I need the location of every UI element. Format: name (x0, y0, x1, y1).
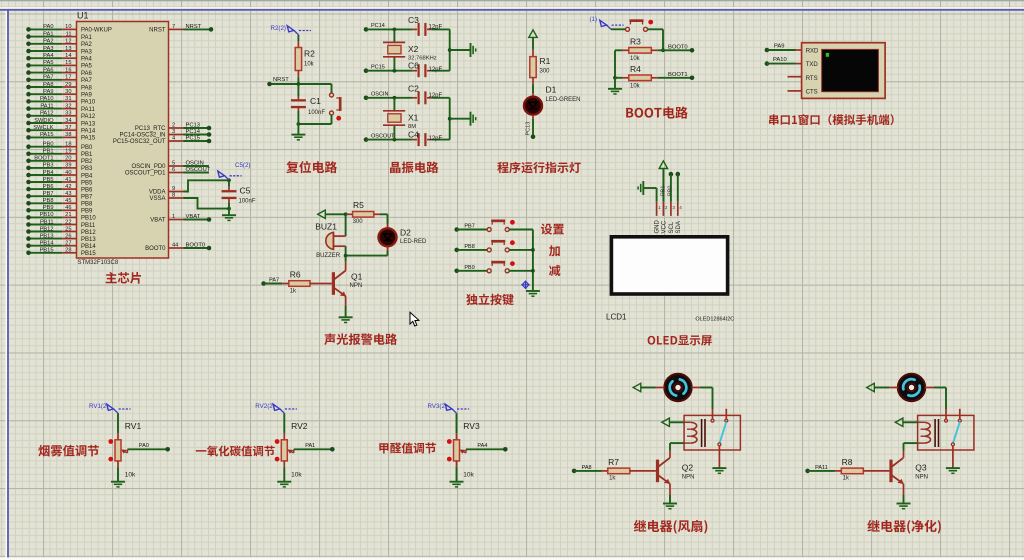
svg-text:PA8: PA8 (81, 85, 93, 91)
svg-text:PB11: PB11 (40, 219, 54, 225)
svg-text:PA13: PA13 (81, 121, 96, 127)
svg-text:100nF: 100nF (308, 110, 325, 116)
svg-text:PA11: PA11 (40, 103, 53, 109)
svg-text:2: 2 (665, 205, 668, 210)
svg-text:37: 37 (65, 125, 71, 131)
svg-text:BOOT1: BOOT1 (668, 72, 688, 78)
svg-text:10k: 10k (630, 83, 641, 89)
svg-text:10k: 10k (463, 472, 474, 479)
svg-text:13: 13 (65, 46, 71, 52)
svg-text:300: 300 (353, 219, 364, 225)
svg-text:PB13: PB13 (81, 237, 96, 243)
svg-text:41: 41 (65, 177, 71, 183)
svg-text:1: 1 (658, 205, 661, 210)
svg-text:Q3: Q3 (915, 462, 927, 472)
svg-text:R5: R5 (353, 200, 364, 210)
svg-text:PB15: PB15 (40, 248, 54, 254)
svg-text:39: 39 (65, 163, 71, 169)
svg-text:OSCOUT: OSCOUT (371, 133, 395, 139)
svg-text:8M: 8M (408, 124, 416, 130)
svg-text:D1: D1 (546, 85, 557, 95)
svg-text:PA3: PA3 (43, 46, 53, 52)
svg-text:21: 21 (65, 212, 71, 218)
svg-text:C5(2): C5(2) (235, 162, 250, 169)
svg-text:PA4: PA4 (477, 443, 487, 449)
svg-text:VBAT: VBAT (186, 214, 201, 220)
svg-text:PA3: PA3 (81, 49, 93, 55)
svg-text:12pF: 12pF (429, 136, 443, 142)
svg-text:R7: R7 (608, 457, 619, 467)
svg-text:RV2(2): RV2(2) (255, 403, 275, 410)
svg-text:PC13_RTC: PC13_RTC (135, 126, 166, 132)
svg-text:PB1: PB1 (43, 149, 54, 155)
svg-text:33: 33 (65, 111, 71, 117)
svg-text:PA10: PA10 (40, 96, 54, 102)
svg-text:OSCIN: OSCIN (186, 160, 204, 166)
svg-text:PA10: PA10 (81, 100, 96, 106)
svg-text:PA7: PA7 (269, 277, 279, 283)
svg-text:PA6: PA6 (43, 67, 53, 73)
svg-text:OSCIN_PD0: OSCIN_PD0 (131, 164, 166, 170)
svg-text:27: 27 (65, 241, 71, 247)
svg-text:10: 10 (65, 24, 71, 30)
svg-text:OSCOUT_PD1: OSCOUT_PD1 (125, 171, 166, 177)
svg-text:PB15: PB15 (81, 251, 96, 257)
svg-text:PA14: PA14 (81, 129, 96, 135)
svg-text:SWDIO: SWDIO (34, 118, 54, 124)
svg-text:PB4: PB4 (81, 173, 93, 179)
svg-text:BOOT1: BOOT1 (34, 156, 53, 162)
svg-text:STM32F103C8: STM32F103C8 (78, 260, 119, 266)
svg-text:8: 8 (172, 193, 175, 199)
svg-text:31: 31 (65, 96, 71, 102)
svg-text:PA2: PA2 (81, 42, 93, 48)
svg-text:OLED12864I2C: OLED12864I2C (695, 316, 734, 322)
svg-text:PB14: PB14 (81, 244, 96, 250)
svg-text:PB0: PB0 (43, 142, 54, 148)
svg-text:PB3: PB3 (81, 166, 93, 172)
svg-text:PC14-OSC32_IN: PC14-OSC32_IN (119, 133, 165, 139)
svg-text:PA2: PA2 (43, 39, 53, 45)
svg-text:R8: R8 (842, 457, 853, 467)
svg-text:9: 9 (172, 186, 175, 192)
svg-text:X1: X1 (408, 113, 419, 123)
svg-text:R1: R1 (540, 56, 551, 66)
svg-text:PB13: PB13 (40, 233, 54, 239)
svg-text:PB7: PB7 (464, 224, 474, 230)
svg-text:25: 25 (65, 226, 71, 232)
svg-text:Q2: Q2 (682, 462, 694, 472)
svg-text:R3: R3 (630, 36, 641, 46)
svg-text:PB7: PB7 (43, 191, 54, 197)
svg-text:PB5: PB5 (43, 177, 54, 183)
svg-text:PA11: PA11 (815, 465, 828, 471)
svg-text:LCD1: LCD1 (606, 312, 627, 321)
svg-text:4: 4 (679, 205, 682, 210)
svg-text:NRST: NRST (149, 28, 166, 34)
svg-text:RV3(2): RV3(2) (428, 403, 448, 410)
svg-text:PA4: PA4 (81, 57, 93, 63)
svg-text:32: 32 (65, 103, 71, 109)
svg-text:D2: D2 (400, 227, 411, 237)
svg-text:NPN: NPN (915, 475, 928, 481)
svg-text:100nF: 100nF (239, 199, 256, 205)
svg-text:PA5: PA5 (81, 64, 93, 70)
svg-text:BUZZER: BUZZER (316, 253, 341, 259)
svg-text:PB5: PB5 (81, 180, 93, 186)
svg-text:45: 45 (65, 198, 71, 204)
svg-text:VCC: VCC (661, 220, 667, 233)
svg-text:PB0: PB0 (81, 145, 93, 151)
svg-text:300: 300 (540, 69, 551, 75)
svg-text:1k: 1k (609, 476, 616, 482)
svg-text:12pF: 12pF (429, 93, 443, 99)
svg-text:RV2: RV2 (291, 421, 308, 431)
svg-text:PC15: PC15 (371, 65, 385, 71)
svg-text:TXD: TXD (806, 62, 819, 68)
svg-text:10k: 10k (630, 56, 641, 62)
svg-text:17: 17 (65, 75, 71, 81)
svg-text:PA0-WKUP: PA0-WKUP (81, 28, 112, 34)
svg-text:44: 44 (172, 243, 178, 249)
svg-text:PA1: PA1 (81, 35, 93, 41)
svg-text:30: 30 (65, 89, 71, 95)
svg-text:PB3: PB3 (43, 163, 54, 169)
svg-text:PB9: PB9 (43, 205, 54, 211)
svg-text:PB8: PB8 (81, 202, 93, 208)
svg-text:14: 14 (65, 53, 71, 59)
svg-text:BOOT0: BOOT0 (186, 242, 206, 248)
svg-text:Q1: Q1 (351, 271, 363, 281)
svg-text:PB6: PB6 (43, 184, 54, 190)
svg-text:2: 2 (172, 123, 175, 129)
svg-text:PA11: PA11 (81, 107, 95, 113)
svg-text:PA1: PA1 (43, 31, 53, 37)
svg-text:PC13: PC13 (186, 122, 201, 128)
svg-text:20: 20 (65, 156, 71, 162)
svg-text:1k: 1k (290, 288, 297, 294)
svg-text:PA12: PA12 (81, 114, 96, 120)
svg-text:PB4: PB4 (43, 170, 54, 176)
svg-text:PB9: PB9 (81, 209, 93, 215)
svg-text:12pF: 12pF (429, 67, 443, 73)
svg-text:NRST: NRST (273, 77, 289, 83)
svg-text:PB14: PB14 (40, 241, 54, 247)
svg-text:R4: R4 (630, 64, 641, 74)
svg-text:PA5: PA5 (43, 60, 53, 66)
svg-text:C2: C2 (408, 83, 419, 93)
svg-text:SWCLK: SWCLK (33, 125, 53, 131)
svg-text:10k: 10k (291, 472, 302, 479)
svg-text:PA15: PA15 (40, 132, 54, 138)
svg-text:5: 5 (172, 161, 175, 167)
svg-text:OSCOUT: OSCOUT (186, 167, 211, 173)
svg-text:PA8: PA8 (582, 465, 592, 471)
svg-text:C4: C4 (408, 130, 419, 140)
svg-text:PC15-OSC32_OUT: PC15-OSC32_OUT (113, 139, 166, 145)
svg-text:RV3: RV3 (463, 421, 480, 431)
svg-text:28: 28 (65, 248, 71, 254)
svg-text:U1: U1 (77, 11, 89, 21)
svg-text:PB1: PB1 (661, 186, 667, 196)
svg-text:NRST: NRST (186, 24, 202, 30)
svg-text:(1): (1) (590, 16, 598, 23)
svg-text:PB9: PB9 (464, 265, 474, 271)
svg-text:PB2: PB2 (81, 159, 93, 165)
svg-text:4: 4 (172, 136, 175, 142)
svg-text:26: 26 (65, 233, 71, 239)
svg-text:38: 38 (65, 132, 71, 138)
svg-text:NPN: NPN (350, 283, 363, 289)
svg-text:C3: C3 (408, 15, 419, 25)
svg-text:GND: GND (655, 220, 661, 234)
svg-text:43: 43 (65, 191, 71, 197)
svg-text:10k: 10k (125, 472, 136, 479)
svg-text:PB11: PB11 (81, 223, 96, 229)
svg-text:PB10: PB10 (81, 216, 96, 222)
svg-text:NPN: NPN (682, 475, 695, 481)
svg-text:12: 12 (65, 39, 71, 45)
svg-text:PA0: PA0 (139, 443, 149, 449)
svg-text:BUZ1: BUZ1 (315, 221, 337, 231)
svg-text:RV1(2): RV1(2) (89, 403, 109, 410)
svg-text:SCL: SCL (669, 221, 675, 233)
svg-text:PB7: PB7 (81, 195, 93, 201)
svg-text:6: 6 (172, 167, 175, 173)
svg-text:BOOT0: BOOT0 (668, 45, 688, 51)
svg-text:PB10: PB10 (40, 212, 54, 218)
svg-text:3: 3 (172, 129, 175, 135)
svg-text:RTS: RTS (806, 76, 818, 82)
svg-text:PC14: PC14 (186, 129, 201, 135)
svg-text:3: 3 (672, 205, 675, 210)
svg-text:PA0: PA0 (43, 24, 53, 30)
svg-text:C6: C6 (408, 61, 419, 71)
svg-text:PB8: PB8 (43, 198, 54, 204)
svg-text:34: 34 (65, 118, 71, 124)
svg-text:LED-GREEN: LED-GREEN (546, 97, 581, 103)
svg-text:R2(2): R2(2) (271, 25, 286, 32)
svg-text:PA9: PA9 (81, 93, 93, 99)
svg-text:PB1: PB1 (81, 152, 93, 158)
svg-text:VSSA: VSSA (149, 196, 165, 202)
svg-text:PB6: PB6 (81, 187, 93, 193)
svg-text:PA10: PA10 (773, 57, 787, 63)
svg-text:42: 42 (65, 184, 71, 190)
svg-text:C1: C1 (310, 96, 321, 106)
svg-text:PA7: PA7 (81, 78, 93, 84)
svg-text:OSCIN: OSCIN (371, 92, 388, 98)
svg-text:29: 29 (65, 82, 71, 88)
svg-text:7: 7 (172, 24, 175, 30)
svg-text:1k: 1k (843, 476, 850, 482)
svg-text:C5: C5 (240, 186, 251, 196)
svg-text:18: 18 (65, 142, 71, 148)
svg-text:PA15: PA15 (81, 136, 96, 142)
svg-text:PC15: PC15 (186, 135, 201, 141)
svg-text:LED-RED: LED-RED (400, 239, 427, 245)
svg-text:32.768KHz: 32.768KHz (408, 56, 437, 62)
svg-text:1: 1 (172, 214, 175, 220)
svg-text:VBAT: VBAT (150, 218, 166, 224)
svg-text:22: 22 (65, 219, 71, 225)
svg-text:PC13: PC13 (526, 122, 532, 136)
svg-text:12pF: 12pF (429, 25, 443, 31)
svg-text:PC14: PC14 (371, 23, 385, 29)
svg-text:15: 15 (65, 60, 71, 66)
svg-text:RXD: RXD (806, 49, 819, 55)
svg-text:SDA: SDA (676, 221, 682, 233)
svg-text:19: 19 (65, 149, 71, 155)
svg-text:10k: 10k (304, 62, 315, 68)
svg-text:X2: X2 (408, 44, 419, 54)
svg-text:R6: R6 (290, 270, 301, 280)
svg-text:PA6: PA6 (81, 71, 93, 77)
svg-text:PA4: PA4 (43, 53, 53, 59)
svg-text:BOOT0: BOOT0 (145, 246, 166, 252)
svg-text:PA7: PA7 (43, 75, 53, 81)
svg-text:VDDA: VDDA (149, 190, 166, 196)
svg-text:R2: R2 (304, 49, 315, 59)
svg-text:PA9: PA9 (43, 89, 53, 95)
svg-text:PB12: PB12 (40, 226, 54, 232)
svg-text:CTS: CTS (806, 89, 818, 95)
svg-text:PA12: PA12 (40, 111, 54, 117)
svg-text:PB12: PB12 (81, 230, 96, 236)
svg-text:PB0: PB0 (668, 186, 674, 196)
svg-text:PA1: PA1 (305, 443, 315, 449)
svg-text:46: 46 (65, 205, 71, 211)
svg-text:40: 40 (65, 170, 71, 176)
svg-text:PB8: PB8 (464, 244, 474, 250)
svg-text:PA8: PA8 (43, 82, 53, 88)
svg-text:RV1: RV1 (125, 421, 142, 431)
svg-text:16: 16 (65, 67, 71, 73)
svg-text:PA9: PA9 (774, 43, 785, 49)
svg-text:11: 11 (66, 31, 72, 37)
